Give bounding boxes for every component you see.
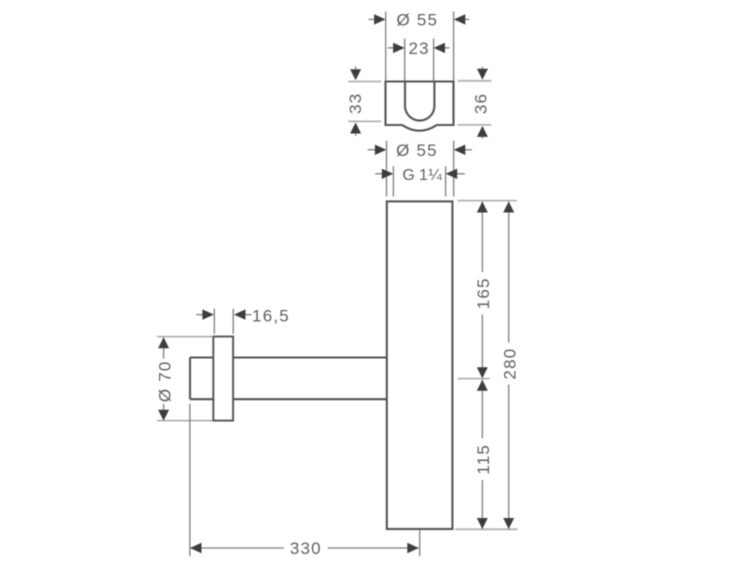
dimension 330 right arrow bbox=[407, 543, 419, 553]
dimension Ø55 lower extension lines bbox=[387, 141, 454, 197]
dimension G1¼ dim line left bbox=[375, 173, 383, 175]
siphon body bbox=[387, 201, 453, 529]
dimension 16,5 extension lines bbox=[214, 309, 233, 334]
dimension 33 top tail bbox=[355, 66, 357, 72]
svg-text:115: 115 bbox=[474, 444, 493, 475]
dimension 165 bottom arrow bbox=[477, 367, 488, 378]
dimension Ø70 bottom arrow bbox=[158, 410, 169, 421]
svg-text:Ø 55: Ø 55 bbox=[396, 10, 438, 29]
dimension 23 dim line left bbox=[388, 47, 395, 49]
right witness line bottom bbox=[455, 528, 517, 530]
svg-text:36: 36 bbox=[472, 93, 491, 114]
dimension 280 bottom arrow bbox=[503, 518, 514, 529]
dimension 23 dim line right bbox=[443, 47, 449, 49]
dimension 33 top arrow bbox=[350, 69, 361, 80]
dimension Ø55 top dim line left bbox=[369, 18, 377, 20]
svg-text:165: 165 bbox=[474, 277, 493, 309]
dimension 165 dim line bbox=[481, 202, 483, 379]
dimension Ø55 lower dim line left bbox=[368, 149, 375, 151]
dimension 330 dim line bbox=[190, 547, 419, 549]
dimension Ø55 top extension lines bbox=[386, 12, 454, 82]
svg-text:280: 280 bbox=[500, 348, 519, 380]
svg-text:Ø 70: Ø 70 bbox=[155, 360, 174, 402]
dimension Ø70 top arrow bbox=[158, 337, 169, 348]
svg-text:Ø 55: Ø 55 bbox=[396, 141, 438, 160]
dimension 16,5 dim line left bbox=[196, 314, 204, 316]
dimension 23 left arrow bbox=[393, 43, 405, 53]
right witness line middle bbox=[458, 378, 490, 380]
dimension 280 dim line bbox=[508, 202, 510, 530]
dimension Ø70 witness lines bbox=[157, 337, 213, 421]
dimension 36 top tail bbox=[481, 67, 483, 73]
dimension 36 bottom arrow bbox=[477, 126, 488, 137]
dimension Ø70 dim line bbox=[163, 337, 165, 420]
dimension G1¼ dim line right bbox=[456, 173, 465, 175]
right witness line top bbox=[458, 200, 517, 202]
dimension Ø55 lower dim line right bbox=[464, 149, 473, 151]
dimension 16,5 dim line right bbox=[244, 314, 251, 316]
dimension Ø55 top left arrow bbox=[374, 14, 386, 24]
dimension 36 bottom tail bbox=[481, 133, 483, 138]
dimension 165 top arrow bbox=[477, 202, 488, 213]
svg-text:16,5: 16,5 bbox=[252, 306, 290, 325]
dimension 330 left arrow bbox=[190, 543, 202, 553]
wall flange bbox=[213, 337, 233, 421]
dimension G1¼ left arrow bbox=[382, 169, 394, 179]
dimension 33 witness lines bbox=[348, 82, 381, 122]
outlet pipe end cap bbox=[189, 358, 191, 400]
dimension 16,5 left arrow bbox=[202, 309, 214, 319]
dimension Ø55 top right arrow bbox=[454, 14, 466, 24]
dimension 115 bottom arrow bbox=[477, 518, 488, 529]
dimension 23 right arrow bbox=[434, 43, 446, 53]
dimension 115 top arrow bbox=[477, 380, 488, 391]
dimension 33 bottom arrow bbox=[350, 123, 361, 134]
svg-text:G 1¼: G 1¼ bbox=[402, 167, 442, 184]
dimension 330 extension lines bbox=[190, 404, 420, 556]
dimension 36 witness lines bbox=[458, 81, 492, 125]
outlet pipe bottom line bbox=[190, 398, 387, 400]
dimension Ø55 top dim line right bbox=[463, 18, 469, 20]
svg-text:23: 23 bbox=[409, 39, 430, 58]
dimension 36 top arrow bbox=[477, 69, 488, 80]
outlet pipe top line bbox=[190, 356, 387, 358]
dimension Ø55 lower right arrow bbox=[454, 145, 466, 155]
dimension G1¼ extension lines bbox=[393, 166, 445, 196]
wall bracket U cutout bbox=[405, 82, 434, 121]
dimension G1¼ right arrow bbox=[446, 169, 458, 179]
dimension 23 extension lines bbox=[405, 39, 434, 82]
svg-text:330: 330 bbox=[290, 539, 322, 558]
dimension 115 dim line bbox=[481, 380, 483, 529]
dimension 16,5 right arrow bbox=[234, 309, 246, 319]
wall bracket outline bbox=[386, 82, 454, 131]
dimension 33 bottom tail bbox=[355, 131, 357, 136]
dimension Ø55 lower left arrow bbox=[375, 145, 387, 155]
svg-text:33: 33 bbox=[346, 93, 365, 114]
dimension 280 top arrow bbox=[503, 202, 514, 213]
